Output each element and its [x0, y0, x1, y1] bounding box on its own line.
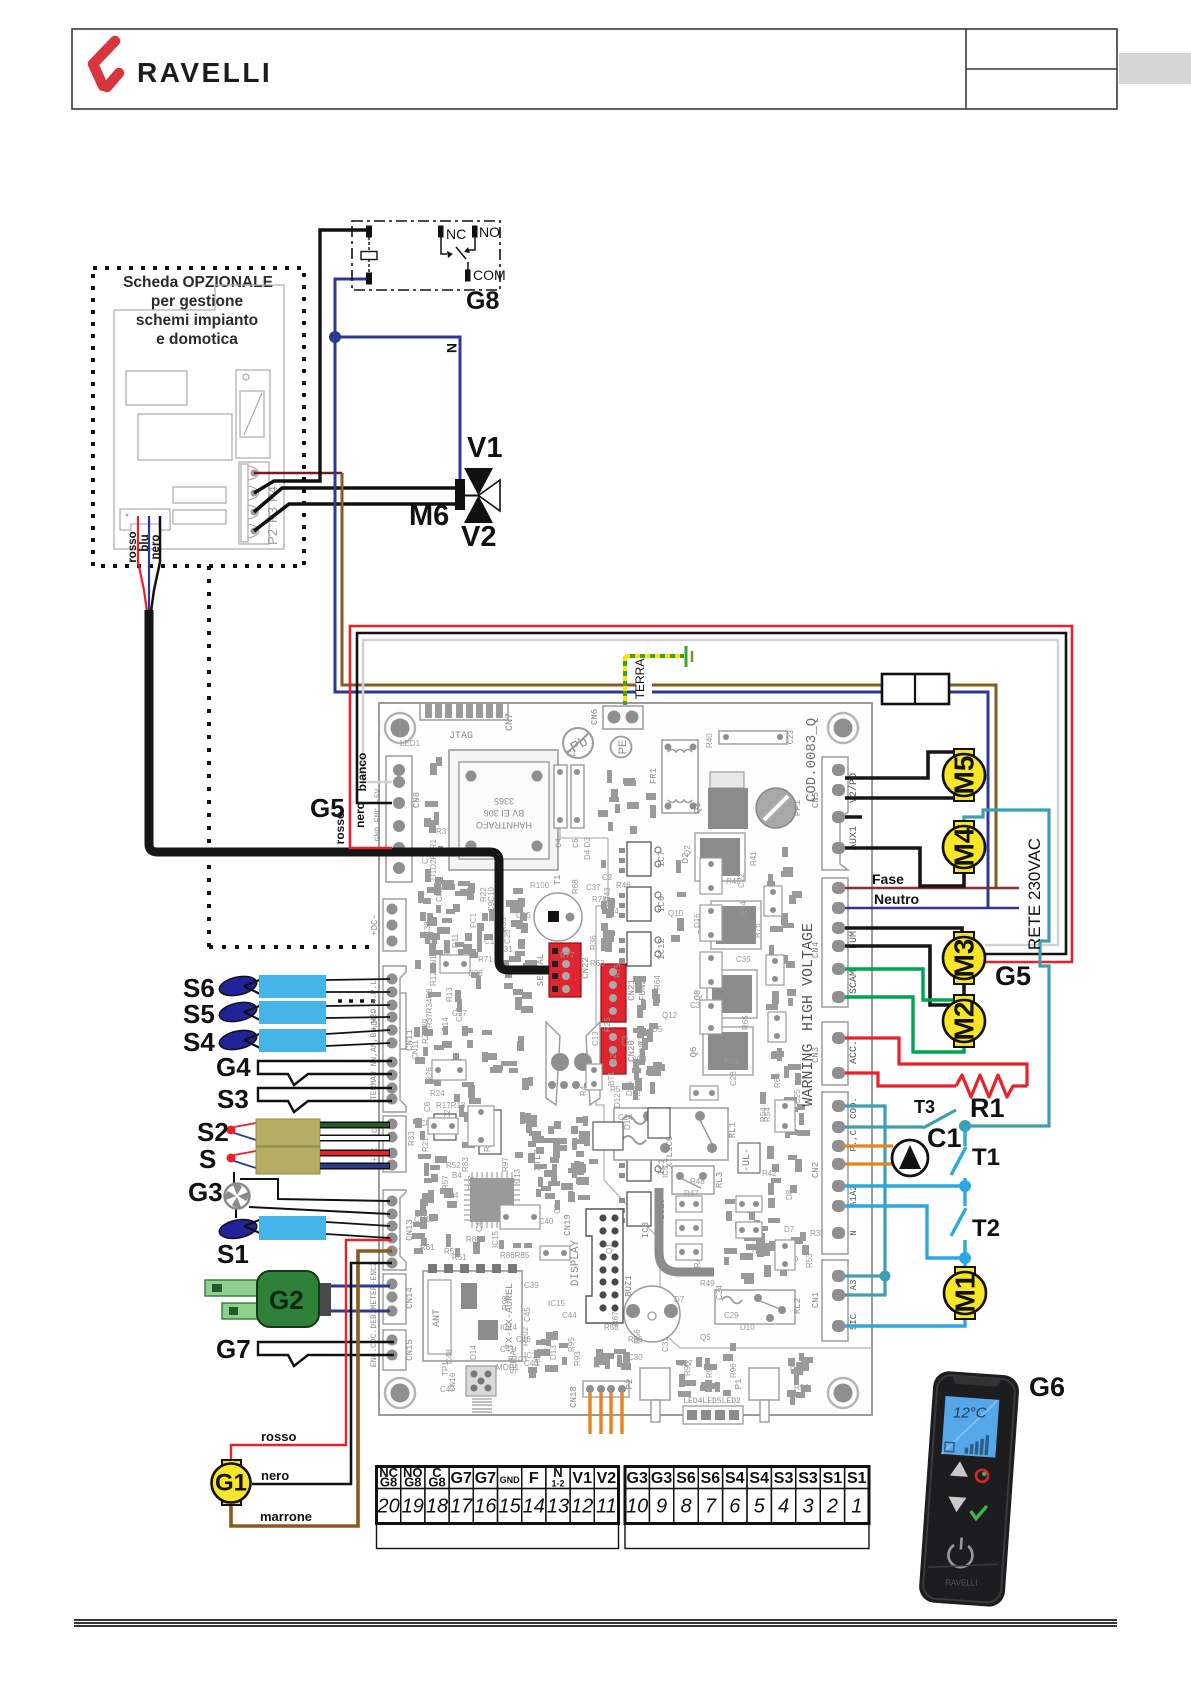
thick encoder cable upper part: [145, 610, 154, 700]
svg-text:CN19: CN19: [563, 1214, 573, 1236]
svg-text:R75: R75: [613, 963, 622, 978]
svg-text:16: 16: [474, 1496, 497, 1518]
connector CN5 V2/PO AUX1: [822, 757, 848, 870]
valve M6 body bar: [455, 479, 465, 510]
svg-text:Q5: Q5: [700, 1333, 711, 1342]
svg-text:FR1: FR1: [649, 768, 659, 784]
footer rule: [74, 1620, 1117, 1626]
svg-text:TX-RX-AUREL: TX-RX-AUREL: [505, 1283, 516, 1349]
svg-text:nero: nero: [150, 535, 162, 560]
svg-text:D12: D12: [613, 1093, 622, 1108]
svg-text:Q10: Q10: [668, 909, 684, 918]
teal junction A3: [880, 1271, 891, 1282]
svg-text:V1: V1: [467, 432, 502, 464]
svg-text:IC5: IC5: [661, 1165, 670, 1178]
svg-text:5: 5: [754, 1496, 766, 1518]
svg-text:G3: G3: [651, 1470, 672, 1487]
fan G3: [225, 1172, 391, 1218]
svg-text:D4 D3: D4 D3: [583, 837, 592, 860]
ground symbol: [685, 646, 688, 667]
thermocouple G7: [258, 1342, 394, 1366]
svg-text:T1: T1: [972, 1144, 1000, 1171]
svg-text:C44: C44: [562, 1311, 577, 1320]
motor M5: [943, 749, 985, 801]
svg-text:1: 1: [851, 1496, 862, 1518]
svg-text:C22: C22: [737, 873, 746, 888]
motor M1: [944, 1267, 986, 1319]
svg-text:R20: R20: [609, 1049, 618, 1064]
svg-text:S2: S2: [197, 1117, 229, 1147]
svg-text:R3: R3: [436, 827, 447, 836]
svg-text:G8: G8: [380, 1475, 397, 1490]
svg-text:SCAM: SCAM: [849, 970, 860, 994]
svg-text:schemi impianto: schemi impianto: [136, 312, 258, 329]
svg-text:G7: G7: [475, 1470, 496, 1487]
wire M1 bottom to SIC: [845, 1314, 965, 1326]
mounting hole TL: [385, 713, 415, 743]
svg-text:R22: R22: [479, 887, 488, 902]
svg-text:G8: G8: [404, 1475, 421, 1490]
G8 coil: [367, 226, 372, 284]
wire S2 green: [320, 1122, 390, 1129]
svg-text:BT1: BT1: [607, 1071, 616, 1086]
svg-text:R87: R87: [467, 1175, 476, 1190]
sensor S connector: [227, 1154, 236, 1163]
wire A1: [845, 1184, 965, 1187]
wire N to valve V1: [335, 337, 460, 481]
wire P2 pin4 to valve M6: [254, 504, 455, 531]
node T2/M1: [959, 1252, 971, 1264]
svg-text:C2: C2: [602, 873, 613, 882]
sensor S5 probe: [218, 999, 390, 1025]
svg-text:R97: R97: [501, 1157, 510, 1172]
wire M5 top: [845, 752, 964, 778]
teal node R1/T1: [959, 1120, 971, 1132]
svg-text:TERRA: TERRA: [633, 659, 647, 700]
sensor S1 probe: [218, 1216, 390, 1241]
svg-text:R77: R77: [560, 951, 575, 960]
svg-text:12: 12: [571, 1496, 593, 1518]
valve V1 triangle: [464, 468, 493, 496]
svg-text:C13: C13: [591, 1031, 600, 1046]
svg-text:Q8: Q8: [693, 990, 703, 1001]
svg-text:C39: C39: [524, 1281, 539, 1290]
wire rosso encoder loop: [350, 626, 1072, 962]
P2 P3 P4 pin labels: [265, 486, 280, 545]
svg-text:C35: C35: [736, 955, 751, 964]
svg-text:S3: S3: [798, 1470, 818, 1487]
left edge connector CN10: [383, 993, 406, 1049]
display connector CN19: [586, 1209, 623, 1323]
svg-text:bianco: bianco: [355, 753, 369, 792]
svg-text:IC12: IC12: [657, 938, 667, 960]
motor G1: [212, 1460, 251, 1505]
svg-text:C29: C29: [724, 1311, 739, 1320]
svg-text:C48: C48: [445, 1349, 454, 1364]
svg-text:Q12: Q12: [662, 1011, 678, 1020]
svg-text:S4: S4: [183, 1027, 215, 1057]
optional board dotted frame: [93, 268, 304, 566]
terminal block table 1: [377, 1467, 619, 1549]
svg-text:9: 9: [656, 1496, 667, 1518]
svg-text:D7: D7: [784, 1225, 795, 1234]
svg-text:R53: R53: [805, 1253, 814, 1268]
thick encoder cable to PCB: [149, 698, 549, 970]
svg-text:C4: C4: [555, 838, 564, 848]
svg-text:nero: nero: [353, 802, 367, 828]
wire S blue: [320, 1163, 390, 1170]
valve V2 triangle: [464, 496, 493, 524]
wire CN18 pin4: [620, 1393, 623, 1434]
wire CN18 pin3: [609, 1393, 612, 1434]
svg-text:Q3: Q3: [693, 803, 703, 814]
radio module TX-RX-AUREL: [423, 1271, 522, 1361]
wire nero from J1: [151, 516, 160, 612]
svg-text:+DC-: +DC-: [370, 914, 380, 936]
svg-text:ENC.COC.: ENC.COC.: [370, 1329, 379, 1367]
svg-text:R57: R57: [441, 1175, 450, 1190]
svg-text:G3: G3: [627, 1470, 648, 1487]
svg-text:IC8: IC8: [641, 1222, 651, 1238]
svg-text:P2: P2: [265, 529, 280, 545]
thermocouple S3: [258, 1088, 392, 1112]
motor M4: [943, 821, 985, 873]
svg-text:SERIAL: SERIAL: [509, 1345, 518, 1374]
G8 contacts NC NO COM: [439, 226, 478, 281]
connector CN6: [603, 706, 643, 729]
svg-text:R36: R36: [589, 935, 598, 950]
wire P orange: [845, 1144, 893, 1147]
svg-text:S1: S1: [217, 1239, 249, 1269]
wire M3 bottom: [845, 946, 964, 1005]
sensor S6 probe: [218, 973, 390, 999]
wire nero P2 pin2 to G8: [254, 230, 369, 493]
svg-text:R102: R102: [521, 1326, 530, 1346]
svg-text:TERMAU NN,AN,BN,H2O N.P.L: TERMAU NN,AN,BN,H2O N.P.L: [370, 980, 379, 1100]
svg-text:14: 14: [523, 1496, 545, 1518]
svg-text:IC14: IC14: [500, 1323, 517, 1332]
svg-text:S6: S6: [676, 1470, 696, 1487]
svg-text:G5: G5: [995, 961, 1031, 991]
svg-text:IC15: IC15: [491, 1231, 500, 1248]
svg-text:R68: R68: [571, 879, 580, 894]
triac Q3: [710, 772, 744, 788]
svg-text:R64: R64: [653, 975, 662, 990]
svg-text:D13: D13: [549, 1345, 558, 1360]
svg-text:R44: R44: [739, 901, 748, 916]
svg-text:C28: C28: [729, 1071, 738, 1086]
svg-text:R52: R52: [446, 1161, 461, 1170]
connector CN2: [822, 1092, 848, 1254]
svg-text:B4: B4: [452, 1171, 462, 1180]
svg-text:C1: C1: [927, 1123, 962, 1153]
red connector CN21 FUN2: [601, 964, 626, 1022]
svg-text:S5: S5: [183, 999, 215, 1029]
capacitor C23: [719, 731, 787, 744]
resistor R1 zigzag: [956, 1075, 1027, 1097]
wire G2 blue pins: [331, 1285, 390, 1288]
label TERRA: [636, 658, 652, 700]
svg-text:HAHNTRAFO: HAHNTRAFO: [476, 820, 532, 830]
svg-text:R63: R63: [590, 959, 605, 968]
svg-text:C20: C20: [503, 929, 512, 944]
svg-text:FC1: FC1: [469, 912, 478, 928]
svg-text:LED4LED5LED2: LED4LED5LED2: [683, 1397, 741, 1406]
svg-text:C42: C42: [475, 1217, 484, 1232]
G6 up button: [950, 1461, 969, 1477]
svg-text:DEBIMETER-ENC2: DEBIMETER-ENC2: [370, 1261, 379, 1328]
motor M2: [943, 995, 985, 1047]
potentiometer PF1: [756, 788, 796, 828]
svg-text:CN18: CN18: [569, 1386, 579, 1408]
wire CN18 pin2: [599, 1393, 602, 1434]
thermocouple G4: [258, 1061, 392, 1085]
CN16 CN17: [466, 1366, 496, 1396]
svg-text:M1: M1: [950, 1274, 981, 1313]
svg-text:IC6: IC6: [657, 896, 667, 912]
svg-text:RETE 230VAC: RETE 230VAC: [1025, 838, 1044, 950]
svg-text:Neutro: Neutro: [874, 891, 919, 907]
svg-text:R65: R65: [741, 1015, 750, 1030]
power devices D2 D10 Q8 Q6: [695, 833, 745, 881]
G6 screen: [941, 1396, 999, 1458]
transformer T1 HAHNTRAFO: [449, 750, 558, 870]
svg-text:XTL1C6: XTL1C6: [665, 1136, 675, 1168]
svg-text:Q6: Q6: [689, 1047, 699, 1058]
svg-text:per gestione: per gestione: [151, 293, 244, 310]
wire blu G8 to node N: [335, 279, 988, 692]
wire M5 bottom: [845, 796, 964, 800]
svg-text:ACC.: ACC.: [849, 1040, 860, 1064]
svg-text:COD.0083_Q: COD.0083_Q: [804, 718, 820, 802]
svg-text:R54: R54: [759, 1107, 768, 1122]
svg-text:S4: S4: [725, 1470, 745, 1487]
svg-text:Q2: Q2: [683, 845, 692, 856]
svg-text:R58: R58: [604, 1323, 619, 1332]
relay RL3: [672, 1166, 714, 1194]
wire ACC red 1: [845, 1038, 1027, 1086]
LED row: [683, 1406, 743, 1424]
svg-text:R41: R41: [749, 851, 758, 866]
buzzer BUZ1: [624, 1286, 680, 1342]
wire C orange: [845, 1162, 895, 1165]
svg-text:RL2: RL2: [793, 1298, 803, 1314]
svg-text:R83: R83: [461, 1157, 470, 1172]
PCB SMD component scatter: [412, 757, 813, 1405]
left edge connector CN14: [383, 1274, 406, 1324]
svg-text:18: 18: [426, 1496, 448, 1518]
UL mark: [738, 1143, 760, 1173]
svg-text:GND: GND: [500, 1475, 521, 1485]
svg-text:12°C: 12°C: [953, 1405, 987, 1422]
svg-text:4: 4: [778, 1496, 789, 1518]
svg-text:S1: S1: [847, 1470, 867, 1487]
svg-text:R100: R100: [530, 881, 550, 890]
wire M1 top: [963, 1258, 966, 1272]
svg-text:2: 2: [826, 1496, 838, 1518]
wire CN18 pin1: [588, 1393, 591, 1434]
IC9 IC2 IC3 IC13 micro: [479, 1110, 501, 1154]
svg-text:IC7: IC7: [657, 851, 667, 867]
dotted line vertical to PCB: [207, 566, 211, 947]
relay RL2: [715, 1290, 795, 1324]
svg-text:7: 7: [705, 1496, 717, 1518]
svg-text:G8: G8: [428, 1475, 445, 1490]
svg-text:C45: C45: [523, 1307, 532, 1322]
svg-text:BV EI 306: BV EI 306: [484, 808, 525, 818]
svg-text:R96: R96: [729, 1363, 738, 1378]
pump C1: [892, 1140, 928, 1176]
svg-text:G7: G7: [216, 1334, 251, 1364]
valve right outline triangle: [479, 480, 501, 511]
wire S red: [320, 1150, 390, 1157]
svg-text:NC: NC: [446, 226, 466, 242]
svg-text:10: 10: [626, 1496, 648, 1518]
svg-text:C5: C5: [572, 838, 581, 848]
wire PIC teal + switch T3: [845, 1125, 923, 1128]
svg-text:3: 3: [802, 1496, 813, 1518]
svg-text:+ C - C: + C - C: [371, 1128, 380, 1162]
svg-text:T2: T2: [972, 1215, 1000, 1242]
G6 check icon: [971, 1506, 986, 1519]
svg-text:D10: D10: [740, 1323, 755, 1332]
svg-text:COM: COM: [473, 267, 506, 283]
PE symbol: [611, 737, 632, 758]
fuse box: [882, 674, 949, 704]
inductor FR1: [662, 740, 698, 813]
left edge connector CN9: [383, 899, 406, 951]
wire nero encoder loop: [357, 633, 1066, 954]
svg-text:P1: P1: [734, 1379, 744, 1390]
svg-text:R76: R76: [753, 923, 762, 938]
svg-text:RL3: RL3: [715, 1172, 725, 1188]
svg-text:R86R85: R86R85: [500, 1251, 530, 1260]
wire marrone G1: [231, 1251, 392, 1526]
svg-text:R98: R98: [501, 1295, 510, 1310]
terminal block table 2: [625, 1467, 869, 1549]
svg-text:IC13: IC13: [513, 1169, 522, 1186]
svg-text:R66: R66: [628, 1335, 643, 1344]
Ravelli flame logo: [93, 41, 119, 87]
svg-text:CN1: CN1: [811, 1292, 821, 1308]
G6 down button: [947, 1497, 966, 1513]
svg-text:CN14: CN14: [405, 1287, 415, 1309]
svg-text:N: N: [849, 1230, 859, 1235]
svg-text:6: 6: [729, 1496, 741, 1518]
svg-text:DISPLAY: DISPLAY: [570, 1240, 582, 1287]
svg-text:S: S: [199, 1144, 216, 1174]
motor M3: [943, 932, 985, 984]
svg-text:-UL-: -UL-: [742, 1148, 753, 1172]
wire AUX1 stub: [845, 815, 862, 819]
svg-text:NO: NO: [479, 224, 500, 240]
relay RL1: [614, 1108, 728, 1160]
optional board component rect3: [173, 487, 226, 503]
svg-text:1-2: 1-2: [551, 1479, 564, 1489]
connector CN3 ACC: [822, 1022, 848, 1085]
svg-text:M2: M2: [949, 1002, 980, 1041]
svg-text:PE: PE: [617, 740, 629, 755]
svg-text:RAVELLI: RAVELLI: [945, 1579, 977, 1588]
optional board title text: [123, 274, 273, 348]
svg-text:G2: G2: [269, 1285, 304, 1315]
svg-text:Scheda OPZIONALE: Scheda OPZIONALE: [123, 274, 273, 291]
wire Fase: [845, 887, 1019, 890]
svg-text:CN8: CN8: [412, 792, 422, 808]
svg-text:R93: R93: [573, 1351, 582, 1366]
capacitors C4 C5: [554, 765, 567, 828]
wire marrone P2 pin1: [254, 472, 342, 475]
Pb symbol: [563, 728, 593, 758]
svg-text:C47: C47: [440, 1385, 455, 1394]
wire P2 pin3 to valve M6: [254, 488, 455, 512]
optional board component rect4: [173, 510, 226, 524]
svg-text:A1A2: A1A2: [849, 1185, 859, 1207]
connector CN18 with orange wires: [583, 1381, 629, 1397]
wire marrone vertical to mains: [342, 473, 882, 685]
wire rosso G1: [231, 1240, 392, 1462]
svg-text:C31: C31: [661, 1337, 670, 1352]
svg-text:M4: M4: [949, 827, 980, 866]
svg-text:ANT: ANT: [432, 1309, 443, 1327]
svg-text:C37: C37: [586, 883, 601, 892]
svg-text:M6: M6: [409, 500, 449, 532]
svg-text:RAVELLI: RAVELLI: [137, 57, 272, 88]
optional board connector P2: [239, 462, 269, 544]
svg-text:M3: M3: [949, 939, 980, 978]
optional board component rect1: [126, 371, 187, 405]
wire M4 bottom: [845, 848, 964, 886]
svg-text:rosso: rosso: [333, 812, 347, 845]
wire blu from J1: [148, 516, 150, 612]
optional board component rect2: [138, 414, 232, 460]
svg-text:R1: R1: [970, 1093, 1005, 1123]
svg-text:CN6: CN6: [590, 709, 600, 725]
PCB board: [379, 703, 872, 1415]
wire RETE teal: [964, 810, 1049, 1126]
svg-text:JTAG: JTAG: [449, 731, 473, 742]
svg-text:Fase: Fase: [872, 871, 904, 887]
svg-text:19: 19: [402, 1496, 424, 1518]
connector CN7 JTAG: [420, 703, 508, 720]
svg-text:C23: C23: [787, 730, 796, 745]
svg-text:G3: G3: [188, 1177, 223, 1207]
svg-text:CN15: CN15: [405, 1339, 415, 1361]
wire A2: [845, 1206, 965, 1258]
svg-text:S6: S6: [701, 1470, 721, 1487]
optional board connector J1: [120, 509, 170, 530]
svg-text:BUZ1: BUZ1: [624, 1275, 634, 1297]
node N junction: [329, 331, 341, 343]
svg-text:Q1: Q1: [605, 1243, 614, 1254]
svg-text:V2: V2: [597, 1470, 617, 1487]
svg-text:marrone: marrone: [260, 1509, 312, 1524]
dotted line horizontal to PCB: [209, 945, 390, 949]
wire M3 top: [845, 928, 962, 938]
svg-text:R59: R59: [724, 1057, 739, 1066]
svg-text:nero: nero: [261, 1468, 289, 1483]
svg-text:C3: C3: [621, 1035, 630, 1046]
wire M2 bottom green: [845, 997, 964, 1052]
heatsink HS1: [546, 1022, 560, 1105]
sensor S2 connector: [227, 1126, 236, 1135]
svg-text:S3: S3: [774, 1470, 794, 1487]
wire COD teal: [845, 1106, 885, 1295]
svg-text:D14: D14: [469, 1345, 478, 1360]
svg-text:G8: G8: [466, 287, 499, 315]
svg-text:G4: G4: [216, 1052, 251, 1082]
svg-text:S1: S1: [823, 1470, 843, 1487]
